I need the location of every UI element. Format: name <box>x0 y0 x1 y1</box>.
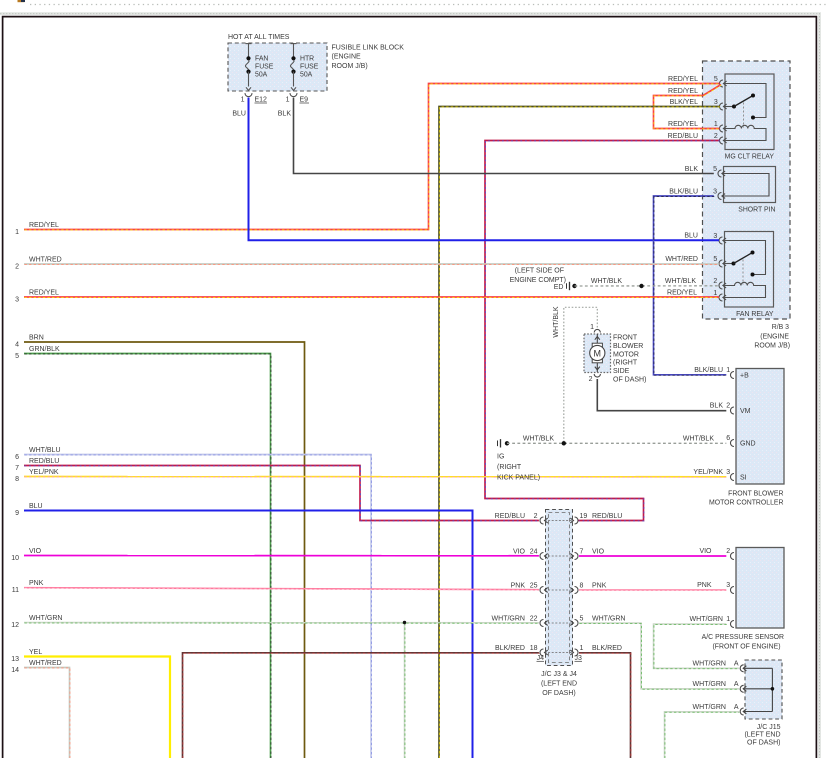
svg-text:3: 3 <box>713 233 717 240</box>
svg-text:PNK: PNK <box>592 582 607 589</box>
controller pin 1 +B <box>730 372 733 379</box>
svg-text:9: 9 <box>15 510 19 517</box>
short pin pin 3 <box>718 193 721 200</box>
svg-text:ENGINE COMPT): ENGINE COMPT) <box>510 277 566 284</box>
svg-text:J/C J3 & J4: J/C J3 & J4 <box>541 671 577 678</box>
svg-text:FRONT: FRONT <box>613 335 638 342</box>
svg-text:BLU: BLU <box>684 232 698 239</box>
FAN RELAY pin 3 <box>719 237 723 244</box>
svg-text:OF DASH): OF DASH) <box>613 376 646 383</box>
A/C sensor pin 2 <box>730 553 733 560</box>
svg-text:1: 1 <box>726 616 730 623</box>
wire 2 WHT/RED to FAN relay pin 5 <box>24 263 719 265</box>
wire BLU from FAN fuse to FAN relay pin 3 <box>249 98 720 241</box>
svg-text:RED/YEL: RED/YEL <box>668 88 698 95</box>
svg-text:WHT/GRN: WHT/GRN <box>29 615 62 622</box>
svg-text:50A: 50A <box>255 71 268 78</box>
short pin pin 5 <box>718 170 721 177</box>
FAN RELAY switch common wire <box>723 241 766 275</box>
browser chrome dotted rule at top <box>30 4 826 6</box>
MG CLT RELAY switch blade diagonal <box>734 96 753 107</box>
wire WHT/GRN from bottom to J15 pin A bottom <box>665 712 739 758</box>
svg-text:(LEFT SIDE OF: (LEFT SIDE OF <box>515 267 564 274</box>
svg-text:+B: +B <box>740 373 749 380</box>
svg-text:2: 2 <box>726 548 730 555</box>
svg-text:5: 5 <box>713 166 717 173</box>
svg-text:RED/YEL: RED/YEL <box>29 222 59 229</box>
svg-text:A: A <box>734 661 739 668</box>
svg-text:VM: VM <box>740 408 751 415</box>
svg-text:(RIGHT: (RIGHT <box>613 360 638 367</box>
FAN RELAY coil <box>723 282 766 297</box>
svg-text:FAN: FAN <box>255 55 268 62</box>
wire 10 VIO to J4 pin 24 and J3 pin7 to sensor pin 2 <box>24 555 539 557</box>
svg-text:M: M <box>594 348 602 358</box>
svg-text:BLK/RED: BLK/RED <box>495 645 525 652</box>
wire 9 BLU down at x=472.5 <box>24 511 473 758</box>
A/C sensor pin 1 <box>730 621 733 628</box>
svg-text:R/B 3: R/B 3 <box>772 324 789 331</box>
wire WHT/BLK from IG ground to controller GND <box>507 442 726 444</box>
wire RED/BLU from MG CLT pin 2 to J3 pin 19 <box>485 141 720 521</box>
svg-text:BLK/RED: BLK/RED <box>592 645 622 652</box>
svg-text:WHT/GRN: WHT/GRN <box>592 615 625 622</box>
J/C pass-through at y=590 <box>540 587 543 594</box>
svg-text:WHT/BLU: WHT/BLU <box>29 447 61 454</box>
svg-text:FAN RELAY: FAN RELAY <box>736 311 774 318</box>
svg-text:ROOM J/B): ROOM J/B) <box>332 63 368 70</box>
svg-text:FUSE: FUSE <box>255 63 274 70</box>
wire 6 WHT/BLU down at x=371 <box>24 455 371 758</box>
svg-text:IG: IG <box>497 454 504 461</box>
svg-text:BLK/BLU: BLK/BLU <box>694 367 723 374</box>
svg-text:FUSIBLE LINK BLOCK: FUSIBLE LINK BLOCK <box>332 45 405 52</box>
outer gray frame band <box>0 12 818 15</box>
motor M circle <box>592 343 602 348</box>
svg-text:5: 5 <box>714 76 718 83</box>
wire 13 YEL down at x=170 <box>24 657 170 758</box>
svg-text:WHT/BLK: WHT/BLK <box>683 435 714 442</box>
wire WHT/GRN J3 pin5 to J15 pin A middle <box>579 623 739 689</box>
svg-text:12: 12 <box>11 622 19 629</box>
svg-text:J3: J3 <box>575 655 583 662</box>
svg-text:WHT/GRN: WHT/GRN <box>690 616 723 623</box>
J/C pass-through at y=623 <box>540 620 543 627</box>
J15 pin A at y=688.8 <box>740 685 744 692</box>
svg-text:3: 3 <box>726 469 730 476</box>
wire BLK from motor pin 2 to controller VM <box>597 379 726 411</box>
svg-text:MOTOR CONTROLLER: MOTOR CONTROLLER <box>709 500 784 507</box>
MG CLT RELAY pin 3 <box>719 103 723 110</box>
svg-text:BLK: BLK <box>685 166 699 173</box>
svg-text:1: 1 <box>580 645 584 652</box>
svg-text:WHT/RED: WHT/RED <box>665 256 698 263</box>
svg-text:24: 24 <box>530 548 538 555</box>
svg-text:FRONT BLOWER: FRONT BLOWER <box>728 490 783 497</box>
FAN RELAY pin 2 <box>719 282 723 289</box>
svg-text:50A: 50A <box>300 71 313 78</box>
controller pin 3 SI <box>730 474 733 481</box>
J/C pass-through at y=520.5 <box>540 517 543 524</box>
svg-text:7: 7 <box>15 465 19 472</box>
wire BLK/BLU from short pin pin 3 to controller +B <box>654 196 727 375</box>
svg-text:(ENGINE: (ENGINE <box>332 54 362 61</box>
svg-text:8: 8 <box>15 476 19 483</box>
svg-text:1: 1 <box>713 290 717 297</box>
svg-text:VIO: VIO <box>29 548 42 555</box>
controller pin 2 VM <box>730 407 733 414</box>
MG CLT RELAY armature dashed link <box>743 103 745 128</box>
J15 pin A at y=668.3 <box>740 665 744 672</box>
wire 7 RED/BLU to J4 pin 2 <box>24 466 539 521</box>
svg-text:YEL/PNK: YEL/PNK <box>29 469 59 476</box>
svg-text:YEL: YEL <box>29 649 42 656</box>
wire 3 RED/YEL to FAN relay pin 1 <box>24 296 719 298</box>
svg-text:OF DASH): OF DASH) <box>542 690 575 697</box>
svg-text:1: 1 <box>726 367 730 374</box>
svg-text:1: 1 <box>714 121 718 128</box>
wire 5 GRN/BLK down at x=270.5 <box>24 354 271 758</box>
tiny toolbar icon fragment top-left <box>18 0 25 2</box>
svg-text:5: 5 <box>713 256 717 263</box>
svg-text:2: 2 <box>726 403 730 410</box>
svg-text:HOT AT ALL TIMES: HOT AT ALL TIMES <box>228 34 290 41</box>
svg-text:RED/YEL: RED/YEL <box>667 289 697 296</box>
wire WHT/BLK from motor pin 1 up and over to vertical run <box>564 307 598 443</box>
svg-text:BLOWER: BLOWER <box>613 343 643 350</box>
blower motor internal wire and arrows <box>596 334 598 345</box>
wire BLK/RED from J3 pin 1 to bottom <box>579 653 631 758</box>
wire WHT/GRN sensor pin1 to J15 pin A top <box>654 624 739 668</box>
connector pin 1 E12 below FAN fuse <box>245 93 252 97</box>
fusible link block dashed box <box>228 43 327 91</box>
MG CLT RELAY pin 1 <box>719 125 723 132</box>
svg-text:SI: SI <box>740 475 747 482</box>
junction connector J3 and J4 dashed body <box>546 510 573 666</box>
svg-text:3: 3 <box>15 297 19 304</box>
junction connector J15 dashed body <box>745 660 782 719</box>
svg-text:WHT/BLK: WHT/BLK <box>553 306 560 337</box>
svg-text:RED/YEL: RED/YEL <box>668 121 698 128</box>
svg-text:4: 4 <box>15 342 19 349</box>
svg-text:J4: J4 <box>537 655 545 662</box>
svg-text:E9: E9 <box>300 97 309 104</box>
svg-text:WHT/RED: WHT/RED <box>29 256 62 263</box>
wire 12 WHT/GRN to J4 pin 22 with branch down at x=404.5 <box>24 622 539 624</box>
svg-text:OF DASH): OF DASH) <box>747 740 780 747</box>
svg-text:SIDE: SIDE <box>613 368 630 375</box>
svg-text:RED/YEL: RED/YEL <box>668 76 698 83</box>
svg-text:14: 14 <box>11 667 19 674</box>
svg-text:J/C J15: J/C J15 <box>757 724 781 731</box>
svg-text:MOTOR: MOTOR <box>613 351 639 358</box>
svg-text:WHT/BLK: WHT/BLK <box>591 278 622 285</box>
front blower motor body <box>584 334 611 373</box>
svg-text:PNK: PNK <box>697 582 712 589</box>
svg-text:25: 25 <box>530 582 538 589</box>
svg-text:BLU: BLU <box>232 111 246 118</box>
svg-text:19: 19 <box>580 513 588 520</box>
wire 14 WHT/RED down at x=69.5 <box>24 668 70 758</box>
svg-text:5: 5 <box>15 353 19 360</box>
svg-text:(RIGHT: (RIGHT <box>497 464 522 471</box>
wire 4 BRN down at x=304.5 <box>24 342 305 758</box>
svg-text:WHT/GRN: WHT/GRN <box>693 704 726 711</box>
svg-text:2: 2 <box>713 278 717 285</box>
svg-text:MG CLT RELAY: MG CLT RELAY <box>725 154 775 161</box>
svg-text:BLU: BLU <box>29 503 43 510</box>
svg-text:WHT/GRN: WHT/GRN <box>693 661 726 668</box>
FAN RELAY switch contact from second pin <box>723 263 733 265</box>
svg-text:BLK/BLU: BLK/BLU <box>669 188 698 195</box>
svg-text:(FRONT OF ENGINE): (FRONT OF ENGINE) <box>712 644 780 651</box>
relay FAN RELAY body <box>725 232 774 308</box>
svg-text:7: 7 <box>580 548 584 555</box>
svg-text:2: 2 <box>534 513 538 520</box>
svg-text:WHT/BLK: WHT/BLK <box>523 435 554 442</box>
FAN RELAY pin 1 <box>719 294 723 301</box>
svg-text:VIO: VIO <box>513 548 526 555</box>
svg-text:WHT/GRN: WHT/GRN <box>492 615 525 622</box>
svg-text:3: 3 <box>726 582 730 589</box>
svg-text:10: 10 <box>11 555 19 562</box>
motor pin 1 <box>594 329 600 332</box>
svg-text:A: A <box>734 704 739 711</box>
svg-text:VIO: VIO <box>592 548 605 555</box>
svg-text:RED/BLU: RED/BLU <box>29 458 59 465</box>
svg-text:A/C PRESSURE SENSOR: A/C PRESSURE SENSOR <box>702 634 784 641</box>
front blower motor controller body <box>736 369 784 485</box>
svg-text:2: 2 <box>15 264 19 271</box>
fuse FAN FUSE 50A <box>246 43 252 45</box>
wire BLK from HTR fuse to short pin pin 5 <box>294 98 714 174</box>
svg-text:(LEFT END: (LEFT END <box>541 681 577 688</box>
svg-text:WHT/RED: WHT/RED <box>29 660 62 667</box>
J/C pass-through at y=652.5 <box>540 649 543 656</box>
MG CLT RELAY coil <box>723 125 766 140</box>
svg-text:6: 6 <box>726 435 730 442</box>
svg-text:22: 22 <box>530 615 538 622</box>
svg-text:FUSE: FUSE <box>300 63 319 70</box>
svg-text:RED/YEL: RED/YEL <box>29 289 59 296</box>
J15 internal bus <box>771 668 773 711</box>
svg-text:YEL/PNK: YEL/PNK <box>693 469 723 476</box>
svg-text:(LEFT END: (LEFT END <box>744 732 780 739</box>
svg-text:ROOM J/B): ROOM J/B) <box>754 343 790 350</box>
wire BLK/YEL from MG CLT pin 3 down to bottom <box>439 107 720 758</box>
wire WHT/BLK from ED ground to FAN relay pin 2 <box>572 284 576 288</box>
svg-text:WHT/BLK: WHT/BLK <box>665 278 696 285</box>
svg-text:KICK PANEL): KICK PANEL) <box>497 475 540 482</box>
ground IG (RIGHT KICK PANEL) <box>497 441 499 447</box>
svg-text:RED/BLU: RED/BLU <box>668 133 698 140</box>
svg-text:11: 11 <box>12 587 19 594</box>
connector pin 1 E9 below HTR fuse <box>290 93 297 97</box>
MG CLT RELAY switch contact from second pin <box>723 106 733 108</box>
svg-text:BLK: BLK <box>278 111 292 118</box>
J15 pin A at y=711.5 <box>740 708 744 715</box>
wire 1 RED/YEL to MG CLT relay pin 5 <box>24 84 720 230</box>
svg-text:3: 3 <box>713 188 717 195</box>
svg-text:(ENGINE: (ENGINE <box>760 333 789 340</box>
svg-text:3: 3 <box>714 99 718 106</box>
svg-text:VIO: VIO <box>699 548 712 555</box>
svg-text:BLK: BLK <box>710 402 724 409</box>
svg-text:BRN: BRN <box>29 334 44 341</box>
J/C pass-through at y=556 <box>540 553 543 560</box>
wire 8 YEL/PNK to controller SI <box>24 476 726 478</box>
svg-text:E12: E12 <box>255 97 268 104</box>
motor pin 2 <box>594 374 600 377</box>
svg-text:5: 5 <box>580 615 584 622</box>
FAN RELAY switch blade diagonal <box>734 253 753 264</box>
svg-text:ED: ED <box>554 284 564 291</box>
wire RED/YEL jumper MG CLT pin5 to pin1 <box>654 85 722 129</box>
svg-text:RED/BLU: RED/BLU <box>592 513 622 520</box>
FAN RELAY pin 5 <box>719 260 723 267</box>
controller pin 6 GND <box>730 440 733 447</box>
svg-text:BLK/YEL: BLK/YEL <box>670 99 699 106</box>
svg-text:RED/BLU: RED/BLU <box>495 513 525 520</box>
svg-text:1: 1 <box>286 97 290 104</box>
svg-text:18: 18 <box>530 645 538 652</box>
svg-text:2: 2 <box>714 133 718 140</box>
short pin component <box>724 167 776 203</box>
A/C sensor pin 3 <box>730 587 733 594</box>
J15 bus junction dot <box>771 687 775 691</box>
svg-text:A: A <box>734 681 739 688</box>
svg-text:1: 1 <box>15 229 19 236</box>
A/C pressure sensor body <box>736 548 784 629</box>
MG CLT RELAY switch common wire <box>723 84 766 118</box>
svg-text:HTR: HTR <box>300 55 314 62</box>
svg-text:WHT/GRN: WHT/GRN <box>693 681 726 688</box>
svg-text:1: 1 <box>590 324 594 331</box>
FAN RELAY armature dashed link <box>742 260 744 285</box>
svg-text:GRN/BLK: GRN/BLK <box>29 346 60 353</box>
svg-text:8: 8 <box>580 582 584 589</box>
R/B 3 engine room J/B dashed box <box>703 61 791 319</box>
svg-text:2: 2 <box>589 376 593 383</box>
MG CLT RELAY pin 2 <box>719 137 723 144</box>
MG CLT RELAY pin 5 <box>719 80 723 87</box>
svg-text:1: 1 <box>241 97 245 104</box>
short pin jumper wire <box>722 174 769 197</box>
svg-text:GND: GND <box>740 441 756 448</box>
svg-text:13: 13 <box>11 656 19 663</box>
relay MG CLT RELAY body <box>725 74 774 150</box>
wire BLK/RED from bottom left to J4 pin 18 <box>183 653 539 758</box>
fuse HTR FUSE 50A <box>291 43 297 45</box>
svg-text:PNK: PNK <box>29 580 44 587</box>
svg-text:SHORT PIN: SHORT PIN <box>738 207 775 214</box>
wire 11 PNK to J4 pin 25 and J3 pin8 to sensor pin 3 <box>24 588 539 590</box>
svg-text:PNK: PNK <box>511 582 526 589</box>
svg-text:6: 6 <box>15 454 19 461</box>
